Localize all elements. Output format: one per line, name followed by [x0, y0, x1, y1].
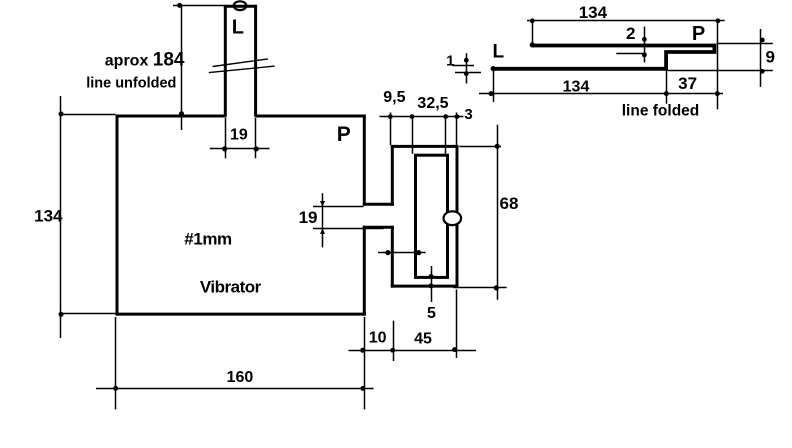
dim 134 top left dot [530, 18, 535, 23]
vibrator plate top edge right segment [255, 115, 366, 118]
dim 19 stub left extension [225, 118, 227, 158]
connector ellipse on folded element [444, 211, 462, 225]
top dims extension a [390, 113, 392, 146]
dim 134 37 lower line [479, 93, 723, 95]
svg-text:10: 10 [369, 329, 387, 346]
svg-text:Vibrator: Vibrator [200, 277, 262, 296]
svg-text:5: 5 [427, 305, 436, 322]
dim 5 vertical line [431, 266, 433, 302]
dim 134 left bottom extension [59, 313, 116, 315]
svg-text:#1mm: #1mm [184, 229, 232, 248]
svg-text:aprox 184: aprox 184 [105, 50, 185, 71]
connecting arm top edge [363, 203, 394, 206]
slot left width dot 2 [416, 250, 421, 255]
svg-text:2: 2 [626, 24, 635, 43]
svg-text:1: 1 [446, 53, 454, 70]
svg-text:68: 68 [500, 194, 519, 213]
dim 160 left dot [113, 386, 118, 391]
top dims extension b [412, 117, 414, 154]
svg-text:134: 134 [563, 78, 590, 95]
svg-text:L: L [493, 42, 505, 63]
bottom extension at plate right [364, 317, 366, 409]
svg-text:134: 134 [579, 3, 608, 22]
folded element outer top edge [391, 145, 459, 148]
top dims dot 2 [410, 114, 415, 119]
feed stub top edge [224, 5, 257, 8]
svg-text:3: 3 [464, 106, 472, 123]
dim 9 vertical line [760, 29, 762, 87]
dim 2 top dot [642, 37, 647, 42]
dim 134 left bottom dot [59, 312, 64, 317]
svg-text:32,5: 32,5 [417, 95, 448, 112]
folded element inner slot rectangle [416, 155, 448, 277]
break mark line 2 [209, 66, 275, 73]
stub tip ellipse [234, 1, 247, 10]
dim aprox184 horizontal line [173, 5, 224, 7]
dim 10 45 dot 2 [390, 348, 395, 353]
dim 5 bottom dot [429, 283, 434, 288]
dim 68 bottom dot [494, 285, 499, 290]
dim lower left extension [493, 71, 495, 102]
slot left width dim line [378, 252, 426, 254]
dim 10 45 dot 3 [452, 347, 457, 352]
svg-text:134: 134 [34, 207, 63, 226]
dim 19 arm up arrow [320, 228, 325, 234]
dim 19 arm down arrow [320, 201, 325, 207]
folded element outer bottom edge [391, 285, 459, 288]
svg-text:L: L [232, 17, 244, 39]
dim 2 bottom dot [642, 53, 647, 58]
dim lower step extension [666, 71, 668, 104]
dim 2 tick [616, 53, 646, 55]
dim aprox184 vertical line [181, 5, 183, 131]
bottom extension at folded right [456, 289, 458, 358]
folded line lower end dot [491, 66, 496, 71]
slot left width dot 1 [385, 250, 390, 255]
dim 9 top dot [760, 38, 765, 43]
dim 5 top dot [429, 274, 434, 279]
dim 19 arm vertical line [322, 193, 324, 247]
feed stub right wall [254, 5, 257, 116]
vibrator plate top edge left segment [116, 115, 227, 118]
dim 19 stub line [210, 148, 270, 150]
dim 19 arm top tick [313, 206, 364, 208]
bottom extension at folded left [393, 321, 395, 361]
top dims extension d [456, 113, 458, 146]
dim aprox184 bottom dot [179, 111, 184, 116]
extension at plate left bottom [115, 317, 117, 409]
vibrator plate bottom edge [116, 313, 366, 316]
dim 1 bottom dot [464, 71, 469, 76]
top dims dot 1 [388, 114, 393, 119]
dim 134 top left extension [532, 21, 534, 44]
svg-text:160: 160 [227, 369, 254, 386]
dim 2 vertical line [644, 27, 646, 63]
feed stub left wall [224, 5, 227, 116]
dim 134 top line [527, 20, 725, 22]
dim 19 stub right extension [255, 118, 257, 158]
dim lower dot step [664, 91, 669, 96]
dim 68 top dot [495, 144, 500, 149]
dim 68 bottom extension [453, 287, 506, 289]
svg-text:9: 9 [766, 48, 775, 67]
svg-text:19: 19 [299, 208, 318, 227]
svg-text:9,5: 9,5 [383, 89, 405, 106]
vibrator plate left edge [116, 115, 119, 316]
dim 68 top extension [459, 146, 501, 148]
dim 68 vertical line [497, 125, 499, 300]
connecting arm bottom edge [363, 226, 394, 229]
folded element outer left edge upper [391, 145, 394, 206]
dim lower dot right [715, 91, 720, 96]
dim 19 stub left dot [222, 146, 227, 151]
folded line conductor [492, 46, 714, 69]
folded element outer right edge [456, 145, 459, 288]
dim 134 left top dot [59, 111, 64, 116]
dim 19 arm bottom tick [313, 228, 384, 230]
top dims dot 4 [455, 114, 460, 119]
dim 1 top tick [452, 65, 474, 67]
dim 10 45 line [349, 350, 477, 352]
dim aprox184 top dot [177, 3, 182, 8]
folded element outer left edge lower [391, 226, 394, 288]
vibrator plate right edge lower segment [363, 226, 366, 316]
dim 134 top right extension [717, 21, 719, 110]
svg-text:P: P [692, 23, 705, 45]
svg-text:37: 37 [678, 74, 697, 93]
svg-text:45: 45 [414, 330, 432, 347]
dim lower dot L end [489, 91, 494, 96]
dim 134 top right dot [716, 18, 721, 23]
dim 160 right dot [360, 386, 365, 391]
svg-text:19: 19 [230, 127, 248, 144]
svg-text:line folded: line folded [622, 102, 700, 119]
dim 134 left top extension [59, 114, 116, 116]
top dims dot 3 [443, 114, 448, 119]
dim 1 top dot [464, 58, 469, 63]
dim 160 line [96, 388, 374, 390]
dim 1 vertical line [466, 53, 468, 83]
top dims line [380, 116, 464, 118]
dim 9 bottom extension [668, 70, 773, 72]
dim 1 bottom tick [455, 72, 481, 74]
folded line upper end dot [530, 42, 535, 47]
break mark line 1 [213, 59, 268, 67]
svg-text:line unfolded: line unfolded [86, 76, 176, 92]
dim 9 bottom dot [760, 69, 765, 74]
dim 10 45 dot 1 [360, 348, 365, 353]
dim 134 left vertical line [60, 96, 62, 338]
dim 9 top extension [716, 43, 772, 45]
vibrator plate right edge upper segment [363, 115, 366, 206]
top dims extension c [445, 117, 447, 154]
dim 19 stub right dot [254, 146, 259, 151]
svg-text:P: P [337, 123, 351, 146]
